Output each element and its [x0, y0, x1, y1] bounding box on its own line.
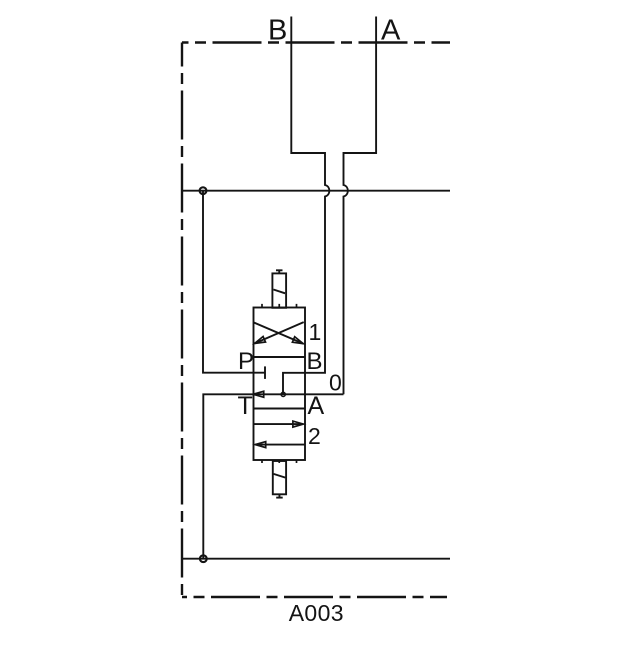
port stub ticks on valve bottom edge: [262, 460, 297, 463]
arrowhead position 1 right: [292, 337, 303, 344]
svg-text:B: B: [307, 348, 323, 375]
node: junction dot in valve centre position: [281, 392, 285, 396]
wire: T return line to lower gallery: [203, 394, 343, 558]
valve position divider upper: [254, 356, 306, 358]
manifold boundary left (dash-dot): [181, 43, 183, 598]
svg-text:P: P: [238, 348, 254, 375]
arrowhead centre position toward T: [253, 391, 264, 397]
svg-text:B: B: [268, 14, 287, 46]
valve V1 body outline: [254, 308, 306, 461]
solenoid Y1 (top) body: [272, 273, 286, 307]
solenoid Y2 pin: [278, 494, 280, 497]
solenoid Y2 (bottom) body: [273, 461, 286, 494]
svg-text:T: T: [238, 392, 253, 420]
wire: upper horizontal gallery line: [182, 190, 450, 192]
arrowhead position 2 left: [255, 442, 266, 448]
wire: P supply from upper gallery to valve: [203, 191, 265, 373]
solenoid Y1 pin bar: [276, 269, 283, 271]
solenoid Y1 pin: [278, 270, 280, 273]
solenoid Y2 pin bar: [276, 497, 283, 499]
node: junction circle upper gallery: [200, 187, 207, 194]
position 2 flow line left: [255, 444, 305, 446]
manifold boundary bottom (dash-dot): [182, 596, 447, 598]
port stub ticks on valve top edge: [262, 304, 297, 308]
arrowhead position 1 left: [255, 337, 266, 344]
svg-text:1: 1: [309, 319, 322, 345]
position 2 flow line right: [254, 423, 304, 425]
svg-text:A: A: [381, 14, 401, 46]
wire: lower horizontal gallery line: [182, 558, 450, 560]
arrowhead position 2 right: [293, 421, 304, 427]
wire: port A line from top with jog and hop: [344, 17, 377, 395]
node: junction circle lower gallery: [200, 555, 207, 562]
solenoid Y1 diagonal: [273, 290, 285, 294]
position 1 crossed flow line a: [254, 323, 303, 344]
svg-text:0: 0: [329, 370, 342, 396]
position 1 crossed flow line b: [255, 322, 304, 343]
valve position divider lower: [254, 408, 306, 410]
blocked port tick at P: [264, 366, 266, 379]
manifold boundary top (dash-dot): [182, 41, 450, 43]
svg-text:A003: A003: [289, 600, 344, 626]
wire: port B line from top with jog and hop: [283, 17, 329, 395]
svg-text:2: 2: [308, 423, 321, 449]
solenoid Y2 diagonal: [274, 474, 286, 478]
svg-text:A: A: [308, 392, 325, 420]
